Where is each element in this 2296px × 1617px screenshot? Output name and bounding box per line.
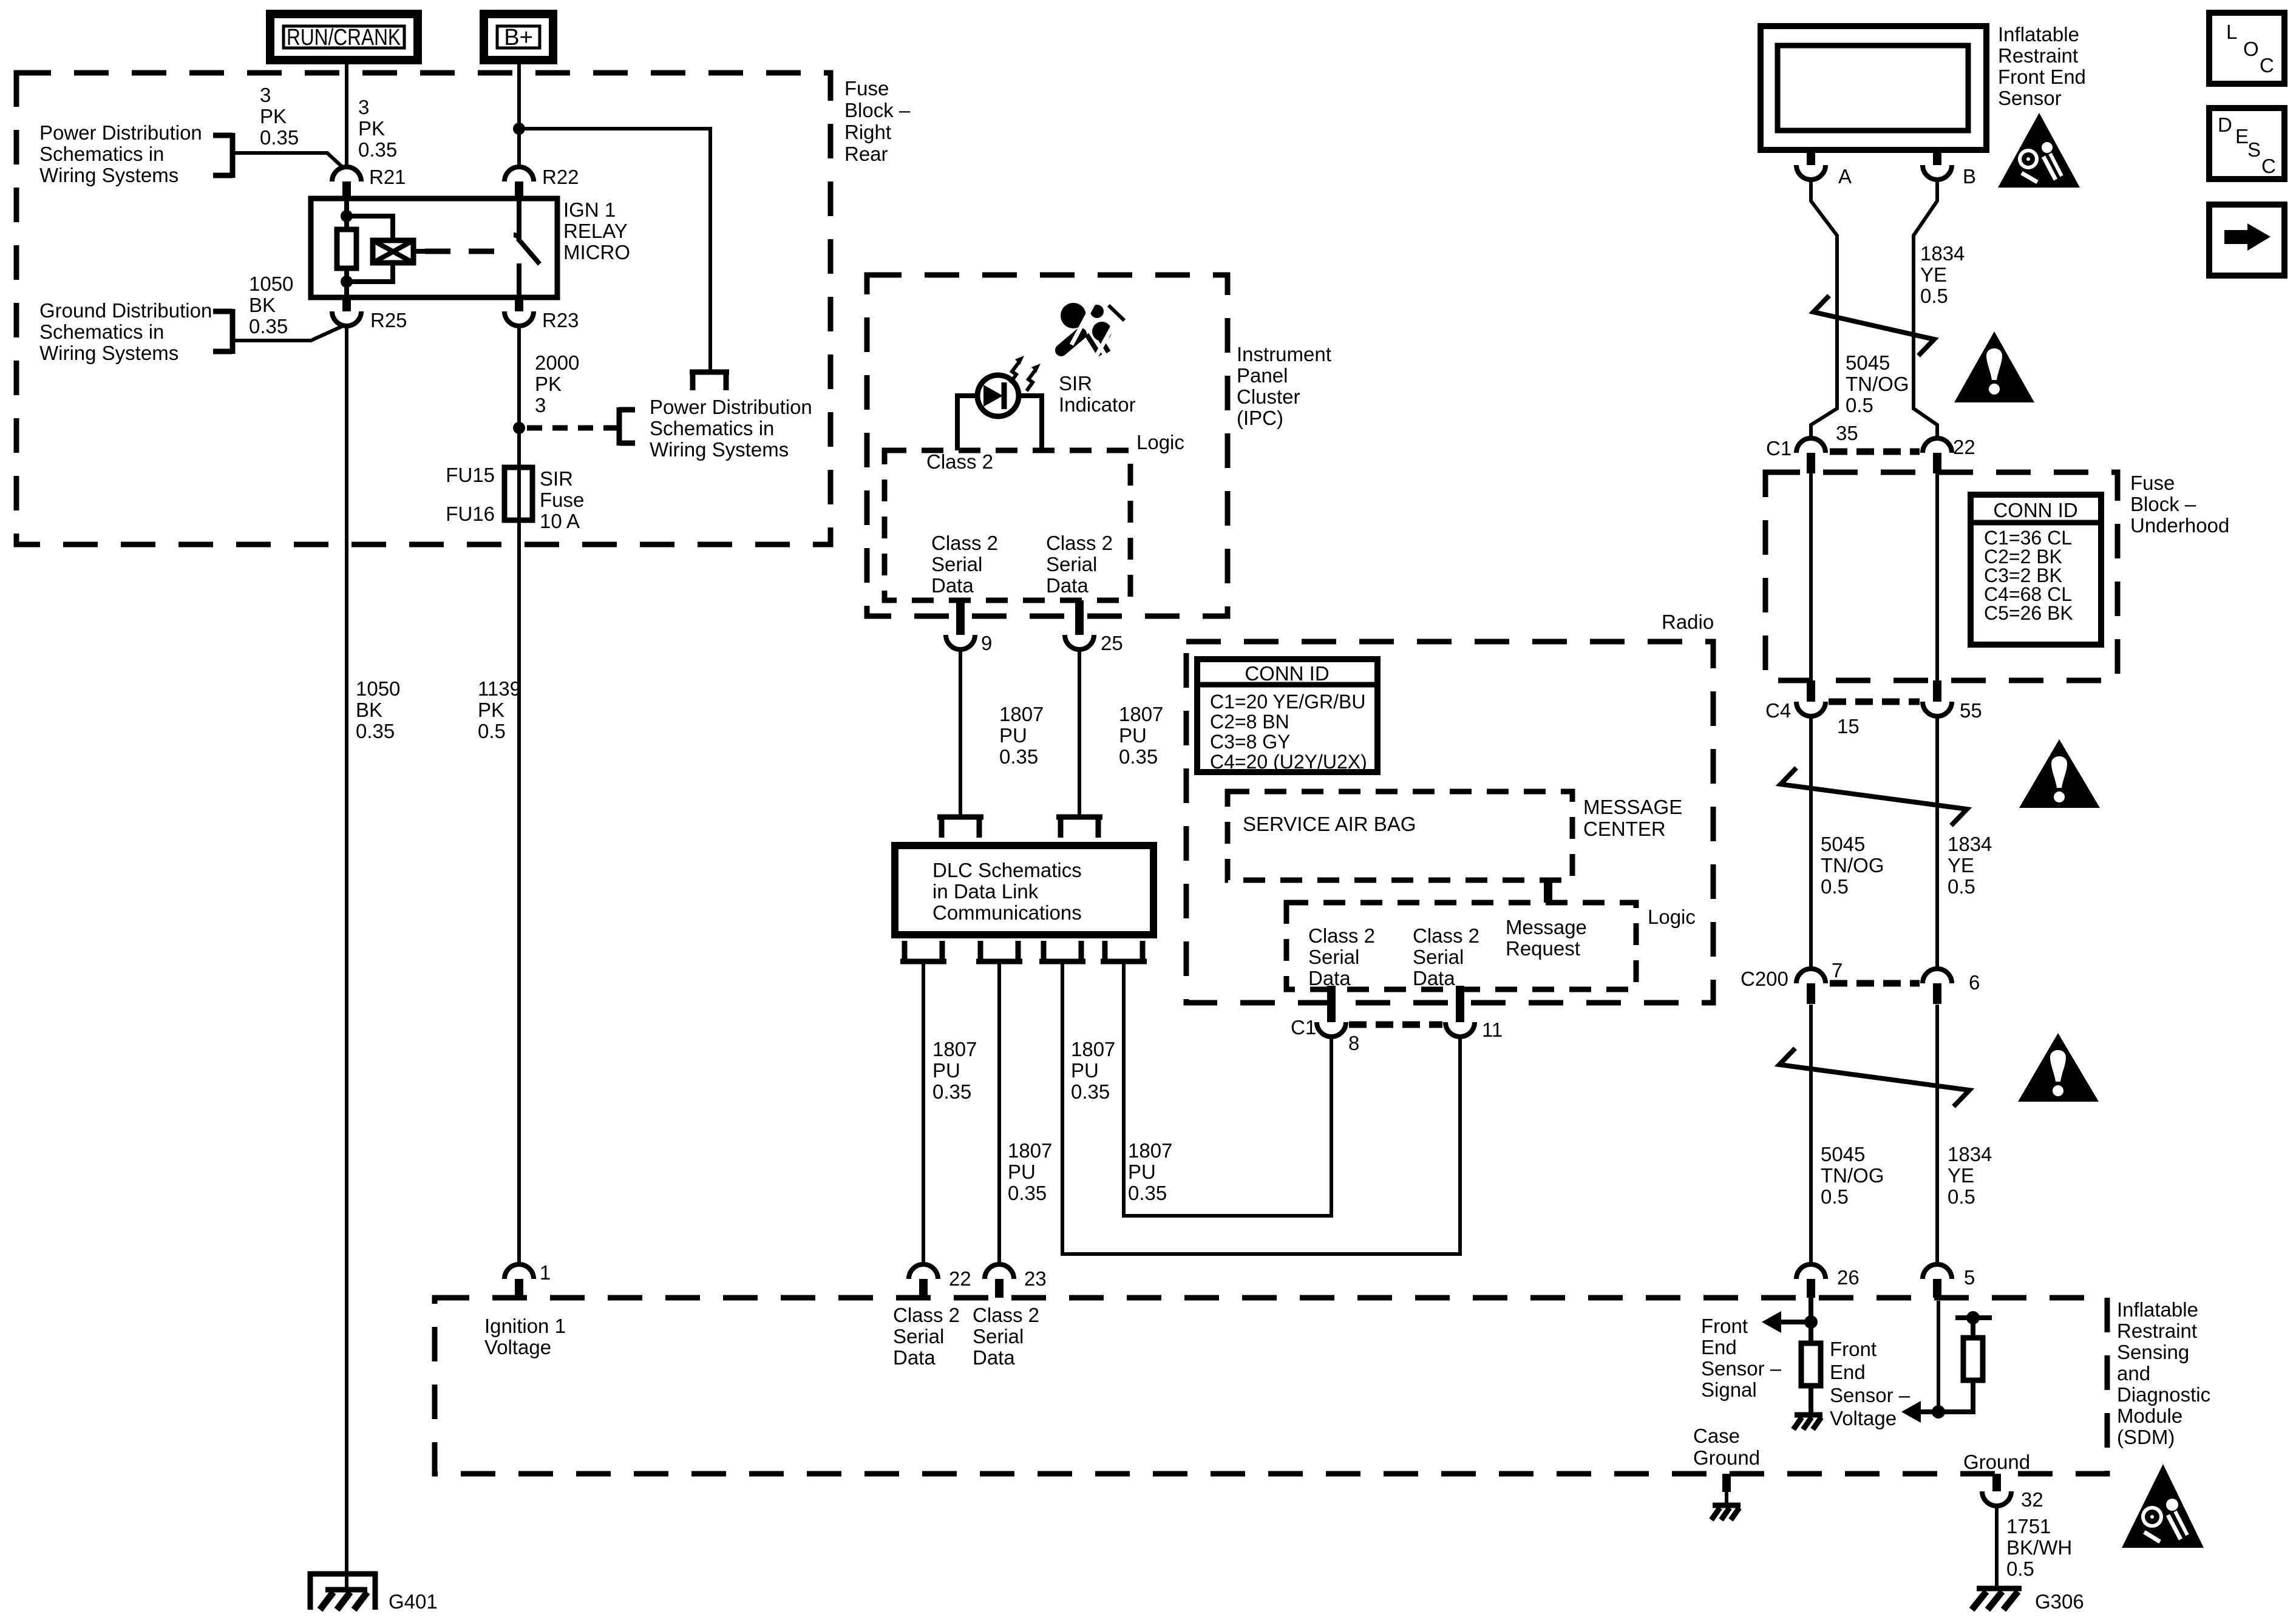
- svg-text:8: 8: [1348, 1032, 1359, 1054]
- svg-text:Class 2: Class 2: [1046, 532, 1113, 554]
- connector R21: [332, 166, 406, 199]
- Fuse Block - Underhood dashed box: [1765, 472, 2118, 680]
- svg-text:Rear: Rear: [844, 143, 888, 165]
- stub SERVICE AIR BAG to logic: [1544, 880, 1552, 903]
- pin 1: [504, 1261, 551, 1298]
- svg-text:Serial: Serial: [973, 1325, 1024, 1347]
- svg-text:1139: 1139: [478, 677, 521, 700]
- Class 2 Serial Data (radio left): [1308, 924, 1375, 989]
- svg-text:Class 2: Class 2: [1308, 924, 1375, 947]
- connector C4 55: [1923, 680, 1982, 722]
- svg-text:RUN/CRANK: RUN/CRANK: [287, 25, 401, 50]
- Inflatable Restraint SDM label: [2117, 1298, 2210, 1448]
- relay diode branch: [347, 216, 425, 282]
- svg-text:2000: 2000: [535, 351, 579, 374]
- svg-text:0.5: 0.5: [1846, 394, 1873, 416]
- wire from power ref to R21: [233, 153, 344, 168]
- svg-text:Wiring Systems: Wiring Systems: [650, 438, 789, 461]
- svg-text:Front End: Front End: [1998, 66, 2086, 88]
- svg-text:Sensor –: Sensor –: [1830, 1384, 1911, 1406]
- resistor (signal): [1801, 1343, 1821, 1386]
- label 1050 BK 0.35 (upper): [249, 273, 293, 337]
- wire pin 32 to G306: [1995, 1506, 1999, 1588]
- Power Distribution reference text (right): [650, 396, 812, 461]
- pin B: [1923, 150, 1976, 188]
- Ignition 1 Voltage label: [484, 1315, 566, 1358]
- wire pin25 to DLC: [1078, 649, 1081, 816]
- airbag warning triangle icon (top): [1998, 113, 2080, 188]
- svg-text:Schematics in: Schematics in: [39, 320, 164, 343]
- svg-text:R25: R25: [370, 309, 407, 331]
- label 5045 TN/OG 0.5 (bottom): [1821, 1143, 1884, 1208]
- svg-text:PU: PU: [1071, 1059, 1099, 1082]
- svg-text:3: 3: [260, 84, 271, 106]
- svg-text:Class 2: Class 2: [926, 450, 993, 473]
- svg-text:CONN ID: CONN ID: [1993, 499, 2077, 521]
- connector C4 15: [1765, 680, 1860, 737]
- svg-text:C3=8 GY: C3=8 GY: [1210, 731, 1291, 753]
- svg-text:Ground Distribution: Ground Distribution: [39, 299, 212, 322]
- dashed ref line from fuse wire junction: [527, 425, 617, 431]
- svg-text:YE: YE: [1920, 263, 1947, 286]
- fuse FU15/FU16 SIR Fuse 10 A: [504, 467, 532, 520]
- svg-text:Fuse: Fuse: [844, 77, 889, 100]
- svg-text:Inflatable: Inflatable: [1998, 23, 2079, 46]
- svg-text:C1: C1: [1291, 1016, 1316, 1039]
- svg-text:MESSAGE: MESSAGE: [1583, 796, 1682, 818]
- svg-text:Front: Front: [1830, 1338, 1877, 1360]
- Class 2 Serial Data (SDM left): [893, 1304, 960, 1369]
- resistor (voltage): [1963, 1338, 1983, 1380]
- wire 22 inside underhood: [1935, 473, 1939, 680]
- svg-text:L: L: [2226, 21, 2237, 43]
- DLC pin cavity (bottom 1): [900, 941, 946, 961]
- svg-text:10 A: 10 A: [540, 510, 580, 532]
- junction dot pin 5 wire: [1932, 1405, 1945, 1419]
- DLC pin cavity (top right): [1056, 817, 1102, 838]
- svg-text:9: 9: [981, 632, 992, 654]
- label 1050 BK 0.35 (lower): [356, 677, 400, 742]
- svg-text:Serial: Serial: [1046, 553, 1097, 575]
- label 1807 PU 0.35 (wire 23): [1008, 1139, 1052, 1204]
- wire R25 to G401: [345, 326, 348, 1590]
- svg-text:PK: PK: [535, 373, 562, 395]
- svg-text:CONN ID: CONN ID: [1245, 662, 1329, 685]
- svg-text:SIR: SIR: [540, 467, 573, 490]
- relay dashed actuator line: [425, 249, 509, 254]
- svg-text:Ignition 1: Ignition 1: [484, 1315, 566, 1337]
- wire RUN/CRANK to R21: [345, 60, 348, 166]
- label 1139 PK 0.5: [478, 677, 521, 742]
- svg-text:Instrument: Instrument: [1237, 343, 1331, 365]
- svg-text:Class 2: Class 2: [973, 1304, 1039, 1326]
- svg-text:Logic: Logic: [1136, 431, 1184, 453]
- svg-text:1834: 1834: [1920, 242, 1965, 265]
- svg-text:Data: Data: [931, 574, 974, 597]
- svg-text:Schematics in: Schematics in: [650, 417, 774, 439]
- case ground (signal): [1793, 1415, 1822, 1429]
- label 2000 PK 3: [535, 351, 579, 416]
- svg-text:Sensor: Sensor: [1998, 87, 2062, 109]
- svg-text:0.5: 0.5: [1948, 1185, 1975, 1208]
- forward arrow box: [2209, 205, 2284, 276]
- wire DLC to radio pin 11: [1062, 964, 1460, 1254]
- SIR airbag person icon: [1061, 303, 1124, 358]
- svg-text:SERVICE AIR BAG: SERVICE AIR BAG: [1243, 813, 1416, 835]
- svg-text:D: D: [2218, 114, 2232, 136]
- svg-text:DLC Schematics: DLC Schematics: [932, 859, 1082, 881]
- svg-text:PU: PU: [999, 724, 1027, 747]
- label 1834 YE 0.5 (bottom): [1948, 1143, 1992, 1208]
- svg-text:0.5: 0.5: [478, 720, 506, 742]
- svg-text:1807: 1807: [1119, 703, 1163, 725]
- LED legs: [957, 393, 1042, 450]
- dashed connector line C4 row: [1829, 699, 1920, 705]
- svg-text:Class 2: Class 2: [893, 1304, 960, 1326]
- relay coil: [337, 198, 356, 297]
- connector C200 6: [1923, 969, 1980, 1004]
- svg-text:1050: 1050: [356, 677, 400, 700]
- relay IGN 1 RELAY MICRO box: [311, 198, 557, 297]
- svg-text:Block –: Block –: [844, 99, 911, 121]
- SIR Indicator label: [1059, 372, 1136, 416]
- svg-text:Indicator: Indicator: [1059, 393, 1136, 416]
- relay coil junction dots: [341, 210, 353, 222]
- svg-text:Class 2: Class 2: [1413, 924, 1479, 947]
- Logic dashed box (radio): [1286, 903, 1636, 989]
- warning triangle (middle): [2019, 739, 2100, 808]
- svg-text:CENTER: CENTER: [1583, 818, 1666, 840]
- svg-text:0.35: 0.35: [1008, 1182, 1047, 1204]
- CONN ID table (underhood): [1971, 495, 2101, 645]
- Radio dashed box: [1186, 642, 1713, 1003]
- svg-text:11: 11: [1482, 1019, 1503, 1041]
- svg-text:C5=26 BK: C5=26 BK: [1984, 602, 2073, 624]
- wire resistor to case ground: [1809, 1386, 1813, 1415]
- svg-text:5: 5: [1964, 1266, 1975, 1289]
- wire B+ to R22: [517, 60, 521, 166]
- Power Distribution reference text: [39, 121, 202, 186]
- svg-text:PK: PK: [260, 105, 287, 127]
- svg-text:Power Distribution: Power Distribution: [39, 121, 202, 144]
- wire 55 down: [1935, 714, 1939, 969]
- svg-text:B: B: [1963, 165, 1976, 188]
- wire pin9 to DLC: [959, 649, 962, 816]
- svg-text:End: End: [1830, 1361, 1866, 1383]
- svg-text:TN/OG: TN/OG: [1846, 373, 1909, 395]
- Fuse Block - Right Rear dashed box: [16, 73, 830, 544]
- svg-text:35: 35: [1836, 422, 1858, 444]
- svg-text:O: O: [2243, 38, 2259, 60]
- bracket (fuse dashed ref): [619, 407, 635, 446]
- svg-text:PU: PU: [932, 1059, 960, 1082]
- pin 11 (radio): [1445, 986, 1503, 1041]
- svg-text:Inflatable: Inflatable: [2117, 1298, 2198, 1321]
- signal arrow: [1762, 1311, 1811, 1333]
- warning triangle (bottom): [2018, 1033, 2099, 1102]
- DLC Schematics box: [895, 846, 1153, 935]
- svg-text:0.5: 0.5: [1920, 285, 1948, 307]
- bracket (ground distribution ref): [213, 309, 233, 354]
- svg-text:(SDM): (SDM): [2117, 1426, 2175, 1448]
- svg-text:Data: Data: [1046, 574, 1089, 597]
- svg-text:G306: G306: [2035, 1590, 2084, 1613]
- svg-text:0.35: 0.35: [999, 745, 1038, 768]
- Class 2 Serial Data (SDM right): [973, 1304, 1039, 1369]
- DLC label: [932, 859, 1082, 924]
- svg-text:End: End: [1701, 1336, 1737, 1358]
- warning triangle (top): [1954, 331, 2034, 402]
- T bar above voltage resistor: [1955, 1311, 1992, 1338]
- Case Ground label: [1693, 1425, 1760, 1469]
- svg-text:BK: BK: [249, 294, 276, 316]
- svg-text:Communications: Communications: [932, 901, 1082, 924]
- CONN ID table (radio): [1197, 659, 1377, 773]
- svg-text:C2=8 BN: C2=8 BN: [1210, 711, 1289, 733]
- label 5045 TN/OG 0.5 (middle): [1821, 833, 1884, 898]
- svg-text:0.5: 0.5: [2006, 1558, 2034, 1580]
- label 1834 YE 0.5 (top): [1920, 242, 1965, 307]
- pin 9: [946, 600, 992, 654]
- svg-text:FU15: FU15: [446, 464, 495, 486]
- svg-text:1834: 1834: [1948, 833, 1992, 855]
- Fuse Block - Right Rear label: [844, 77, 911, 165]
- svg-text:15: 15: [1837, 715, 1860, 737]
- dashed connector line C200 row: [1830, 980, 1920, 987]
- svg-text:MICRO: MICRO: [563, 241, 630, 263]
- MESSAGE CENTER label: [1583, 796, 1682, 840]
- svg-text:22: 22: [949, 1267, 971, 1290]
- svg-text:FU16: FU16: [446, 503, 495, 525]
- SDM dashed box: [435, 1298, 2107, 1474]
- twisted pair crossing (bottom): [1779, 1048, 1969, 1107]
- svg-text:0.35: 0.35: [1128, 1182, 1167, 1204]
- svg-text:7: 7: [1832, 959, 1843, 981]
- svg-text:IGN 1: IGN 1: [563, 198, 616, 221]
- pin 26: [1796, 1264, 1860, 1298]
- svg-text:S: S: [2247, 138, 2261, 161]
- svg-text:25: 25: [1101, 632, 1123, 654]
- svg-text:Restraint: Restraint: [1998, 44, 2078, 67]
- Class 2 Serial Data (IPC right): [1046, 532, 1113, 597]
- pin 25: [1065, 600, 1123, 654]
- svg-text:YE: YE: [1948, 854, 1974, 876]
- svg-text:1: 1: [540, 1261, 551, 1284]
- airbag warning triangle icon (bottom): [2122, 1464, 2204, 1548]
- svg-text:Message: Message: [1506, 916, 1587, 938]
- svg-text:PK: PK: [478, 699, 504, 721]
- svg-text:Logic: Logic: [1648, 906, 1696, 928]
- svg-text:Panel: Panel: [1237, 364, 1288, 387]
- svg-text:Data: Data: [893, 1346, 936, 1369]
- IPC label: [1237, 343, 1331, 429]
- svg-text:26: 26: [1837, 1266, 1860, 1289]
- RUN/CRANK header box: [270, 14, 418, 60]
- voltage arrow: [1901, 1401, 1938, 1423]
- svg-text:3: 3: [535, 394, 546, 416]
- svg-text:Fuse: Fuse: [540, 489, 584, 511]
- svg-text:PU: PU: [1128, 1161, 1156, 1183]
- B+ header box: [484, 14, 553, 60]
- svg-text:Wiring Systems: Wiring Systems: [39, 342, 178, 364]
- svg-text:TN/OG: TN/OG: [1821, 854, 1884, 876]
- svg-text:Serial: Serial: [931, 553, 982, 575]
- svg-text:Sensor –: Sensor –: [1701, 1357, 1782, 1380]
- svg-text:1807: 1807: [999, 703, 1044, 725]
- svg-text:1751: 1751: [2006, 1515, 2051, 1537]
- Instrument Panel Cluster dashed box: [867, 275, 1228, 616]
- svg-text:(IPC): (IPC): [1237, 407, 1283, 429]
- SIR indicator LED: [957, 375, 1042, 416]
- SERVICE AIR BAG dashed box: [1228, 792, 1572, 880]
- svg-text:0.35: 0.35: [1119, 745, 1158, 768]
- svg-text:6: 6: [1969, 971, 1980, 994]
- svg-text:Request: Request: [1506, 937, 1580, 960]
- svg-text:Schematics in: Schematics in: [39, 143, 164, 165]
- pin 22: [909, 1264, 971, 1298]
- wire resistor to junction: [1938, 1380, 1973, 1412]
- svg-text:Voltage: Voltage: [484, 1336, 551, 1358]
- Fuse Block - Underhood label: [2130, 472, 2229, 537]
- svg-text:C200: C200: [1741, 968, 1788, 990]
- svg-text:0.35: 0.35: [358, 138, 397, 161]
- svg-text:Serial: Serial: [1413, 946, 1464, 968]
- svg-text:0.35: 0.35: [1071, 1080, 1110, 1103]
- svg-text:PU: PU: [1008, 1161, 1036, 1183]
- svg-text:in Data Link: in Data Link: [932, 880, 1039, 903]
- svg-text:Front: Front: [1701, 1315, 1748, 1337]
- svg-text:Right: Right: [844, 121, 891, 143]
- svg-text:55: 55: [1960, 699, 1982, 722]
- DLC pin cavity (bottom 2): [976, 941, 1022, 961]
- svg-text:0.5: 0.5: [1821, 875, 1849, 898]
- wire 26 to resistor: [1809, 1298, 1813, 1343]
- svg-text:1050: 1050: [249, 273, 293, 295]
- Class 2 Serial Data (IPC left): [931, 532, 998, 597]
- svg-text:23: 23: [1024, 1267, 1047, 1290]
- svg-text:Voltage: Voltage: [1830, 1407, 1897, 1429]
- connector C1 22: [1923, 436, 1975, 473]
- wire 6 down to pin 5: [1935, 1005, 1939, 1266]
- svg-text:PU: PU: [1119, 724, 1147, 747]
- wire DLC to pin 23: [997, 964, 1001, 1266]
- fuse labels: [446, 464, 584, 532]
- label 1807 PU 0.35 (pin25 wire): [1119, 703, 1163, 768]
- wire B to C1 22: [1914, 180, 1937, 439]
- dashed connector line C1 row: [1830, 449, 1920, 455]
- svg-text:C1: C1: [1766, 437, 1792, 459]
- svg-text:Ground: Ground: [1963, 1451, 2030, 1473]
- svg-text:1807: 1807: [1071, 1038, 1115, 1060]
- svg-text:C4: C4: [1765, 699, 1791, 722]
- svg-text:Sensing: Sensing: [2117, 1341, 2189, 1363]
- Class 2 Serial Data (radio right): [1413, 924, 1479, 989]
- svg-text:1807: 1807: [1008, 1139, 1052, 1162]
- svg-text:R23: R23: [542, 309, 579, 331]
- svg-text:RELAY: RELAY: [563, 220, 628, 242]
- svg-text:and: and: [2117, 1362, 2150, 1385]
- svg-text:Radio: Radio: [1662, 611, 1714, 633]
- svg-text:Diagnostic: Diagnostic: [2117, 1383, 2210, 1406]
- label 3 PK 0.35 (RUN/CRANK wire): [358, 96, 397, 161]
- svg-text:PK: PK: [358, 117, 385, 140]
- svg-text:Serial: Serial: [893, 1325, 944, 1347]
- svg-text:5045: 5045: [1821, 833, 1865, 855]
- svg-text:YE: YE: [1948, 1164, 1974, 1187]
- svg-text:C1=20 YE/GR/BU: C1=20 YE/GR/BU: [1210, 691, 1365, 713]
- ground G306: [1972, 1588, 2084, 1613]
- connector R22: [504, 166, 579, 199]
- svg-text:Cluster: Cluster: [1237, 385, 1300, 408]
- svg-text:R22: R22: [542, 166, 579, 188]
- svg-text:R21: R21: [369, 166, 406, 188]
- twisted pair crossing (top): [1813, 296, 1934, 356]
- svg-text:0.5: 0.5: [1821, 1185, 1849, 1208]
- svg-text:Restraint: Restraint: [2117, 1320, 2197, 1342]
- svg-text:C4=20 (U2Y/U2X): C4=20 (U2Y/U2X): [1210, 751, 1367, 773]
- svg-text:SIR: SIR: [1059, 372, 1092, 395]
- label 1834 YE 0.5 (middle): [1948, 833, 1992, 898]
- case ground pin: [1711, 1474, 1741, 1520]
- label 5045 TN/OG 0.5 (top): [1846, 351, 1909, 416]
- DLC pin cavity (bottom 4): [1101, 941, 1147, 961]
- bracket (power distribution ref): [213, 133, 233, 178]
- twisted pair crossing (middle): [1781, 768, 1967, 825]
- svg-text:Wiring Systems: Wiring Systems: [39, 164, 178, 186]
- svg-text:A: A: [1838, 165, 1852, 188]
- label 1807 PU 0.35 (wire to pin 11): [1071, 1038, 1115, 1103]
- svg-text:E: E: [2235, 125, 2249, 147]
- pin 23: [985, 1264, 1047, 1298]
- svg-text:C: C: [2260, 54, 2274, 76]
- wire DLC to pin 22: [922, 964, 925, 1266]
- svg-text:5045: 5045: [1821, 1143, 1865, 1165]
- svg-text:Fuse: Fuse: [2130, 472, 2175, 494]
- DESC box: [2209, 108, 2284, 179]
- svg-text:Case: Case: [1693, 1425, 1740, 1447]
- svg-text:3: 3: [358, 96, 369, 118]
- svg-text:0.35: 0.35: [356, 720, 395, 742]
- fork symbol above power ref text: [690, 370, 729, 390]
- svg-text:G401: G401: [389, 1590, 438, 1613]
- wire R23 down through fuse: [517, 326, 521, 1265]
- svg-text:0.35: 0.35: [260, 126, 299, 149]
- junction dot on fuse wire: [513, 422, 525, 434]
- wire pin 5 down: [1937, 1301, 1940, 1412]
- label 1751 BK/WH 0.5: [2006, 1515, 2072, 1580]
- connector C1 35: [1766, 422, 1858, 473]
- svg-text:TN/OG: TN/OG: [1821, 1164, 1884, 1187]
- Class 2 inner dashed box: [885, 450, 1130, 600]
- svg-text:Data: Data: [1413, 967, 1455, 989]
- Inflatable Restraint Front End Sensor label: [1998, 23, 2086, 109]
- pin C1 8 (radio): [1291, 986, 1359, 1054]
- connector C200 7: [1741, 959, 1843, 1004]
- pin A: [1796, 150, 1852, 188]
- IGN 1 RELAY MICRO label: [563, 198, 630, 263]
- wire 15 down: [1809, 714, 1813, 969]
- svg-text:BK/WH: BK/WH: [2006, 1536, 2072, 1559]
- pin 32: [1982, 1474, 2043, 1511]
- connector R23: [504, 297, 579, 331]
- svg-text:5045: 5045: [1846, 351, 1890, 374]
- svg-text:Block –: Block –: [2130, 493, 2196, 515]
- wire branch to power distribution fork: [519, 129, 710, 370]
- junction dot pin 26 wire: [1804, 1315, 1818, 1329]
- LED light arrows: [1010, 356, 1041, 391]
- label 1807 PU 0.35 (pin9 wire): [999, 703, 1044, 768]
- ground G401: [308, 1571, 438, 1613]
